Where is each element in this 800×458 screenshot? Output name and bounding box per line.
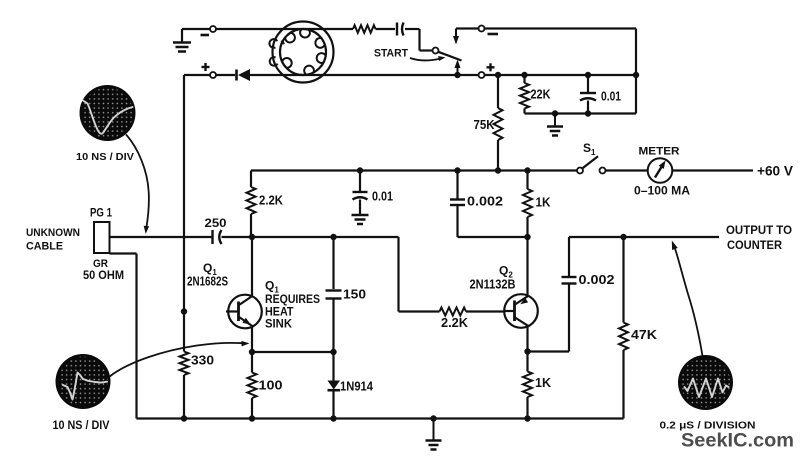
node: [249, 415, 255, 421]
svg-text:START: START: [374, 48, 408, 60]
ground (decoupling): [352, 215, 369, 224]
node: [249, 234, 255, 240]
switch S1: [577, 141, 606, 174]
svg-text:METER: METER: [639, 146, 680, 158]
svg-text:SeekIC.com: SeekIC.com: [681, 430, 794, 452]
switch START blade: [438, 52, 461, 61]
wire: [110, 236, 212, 238]
svg-text:22K: 22K: [531, 87, 552, 102]
transistor Q1 2N1682S: [226, 295, 262, 329]
wire: [182, 28, 210, 30]
node: [633, 72, 639, 78]
wire: [399, 237, 440, 312]
node: [330, 349, 336, 355]
node: [524, 167, 530, 173]
svg-text:PG 1: PG 1: [90, 206, 112, 220]
diode 1N914: [328, 352, 374, 419]
resistor (trigger, unlabeled): [353, 25, 376, 33]
wire: [183, 75, 185, 312]
node (Q2 collector junction): [524, 348, 530, 354]
wire: [222, 236, 399, 238]
resistor 1K (Q2 emitter): [523, 171, 551, 238]
label +60 V supply: [757, 164, 793, 179]
terminal + (trigger): [479, 63, 495, 78]
svg-text:100: 100: [259, 378, 283, 393]
label START: [374, 48, 408, 60]
resistor 2.2K (Q1 collector load): [247, 171, 284, 238]
label UNKNOWN CABLE: [26, 227, 80, 253]
svg-text:0–100 MA: 0–100 MA: [634, 184, 690, 198]
switch contact arrow (down): [453, 29, 459, 45]
svg-text:HEAT: HEAT: [265, 307, 294, 319]
wire: [525, 112, 637, 114]
watermark SeekIC.com: [681, 430, 794, 452]
ground (bias divider): [547, 114, 563, 136]
connector PG1 (pulse generator): [90, 206, 112, 254]
node: [524, 234, 530, 240]
switch START pole: [433, 48, 439, 54]
svg-text:250: 250: [205, 218, 227, 230]
node: [585, 110, 591, 116]
wire: [216, 28, 353, 30]
svg-text:+60 V: +60 V: [757, 164, 793, 179]
svg-text:150: 150: [343, 287, 366, 302]
svg-text:2.2K: 2.2K: [441, 315, 469, 330]
switch contact arrow (up): [455, 60, 461, 75]
annotation arrow (START): [410, 56, 446, 61]
terminal - (battery minus): [201, 26, 217, 35]
diode (series, unlabeled): [237, 69, 251, 81]
annotation arrow (scope2 to Q1 emitter): [109, 341, 250, 377]
svg-text:0.01: 0.01: [372, 189, 393, 204]
svg-text:REQUIRES: REQUIRES: [265, 294, 320, 306]
wire: [110, 254, 137, 419]
wire (Q2 collector): [526, 326, 528, 351]
wire: [376, 28, 396, 30]
capacitor 0.01 (decoupling): [353, 171, 394, 215]
svg-text:2N1682S: 2N1682S: [187, 275, 228, 289]
svg-text:10 NS / DIV: 10 NS / DIV: [76, 151, 134, 163]
wire: [250, 74, 479, 76]
node: [454, 167, 460, 173]
svg-text:10 NS / DIV: 10 NS / DIV: [53, 418, 110, 432]
resistor 75K: [474, 75, 503, 171]
svg-text:CABLE: CABLE: [26, 241, 63, 253]
svg-text:2N1132B: 2N1132B: [470, 278, 516, 292]
oscilloscope display (input pulse) 10 NS/DIV: [76, 85, 136, 163]
node (Q1 emitter junction): [249, 349, 255, 355]
svg-text:0.002: 0.002: [579, 272, 615, 287]
wire: [252, 351, 334, 353]
svg-text:SINK: SINK: [265, 319, 293, 331]
svg-text:47K: 47K: [631, 327, 658, 342]
wire: [606, 169, 648, 171]
node: [330, 234, 336, 240]
wire: [485, 74, 637, 76]
label Q1 2N1682S: [187, 261, 228, 289]
node (start junction): [454, 72, 460, 78]
svg-text:UNKNOWN: UNKNOWN: [26, 227, 80, 239]
node: [620, 234, 626, 240]
label Q1 requires heat sink: [265, 279, 320, 331]
ground (negative battery terminal): [173, 29, 191, 52]
wire: [528, 350, 570, 352]
wire: [405, 29, 433, 51]
node: [495, 167, 501, 173]
label Q2 2N1132B: [470, 264, 516, 292]
node: [524, 415, 530, 421]
wire (ground rail): [137, 417, 624, 419]
node: [521, 72, 527, 78]
wire: [216, 74, 235, 76]
svg-text:COUNTER: COUNTER: [727, 240, 783, 252]
node: [552, 110, 558, 116]
wire: [485, 29, 637, 114]
svg-text:0.002: 0.002: [467, 194, 503, 209]
label GR 50 OHM: [83, 258, 124, 282]
svg-text:1N914: 1N914: [340, 379, 374, 394]
resistor 1K (Q2 collector): [523, 352, 552, 419]
capacitor 250 (input coupling): [205, 218, 227, 244]
capacitor (trigger, unlabeled): [397, 23, 404, 36]
node: [585, 72, 591, 78]
svg-text:75K: 75K: [474, 117, 496, 132]
svg-text:2.2K: 2.2K: [259, 193, 284, 208]
node: [330, 415, 336, 421]
annotation arrow (scope1 to input wire): [126, 135, 149, 235]
resistor 2.2K (Q2 base): [440, 308, 506, 331]
wire: [251, 169, 578, 171]
oscilloscope display (output waveform) 0.2 uS/DIVISION: [660, 355, 756, 432]
oscilloscope display (emitter waveform) 10 NS/DIV: [53, 354, 111, 432]
svg-text:0.01: 0.01: [601, 89, 621, 104]
resistor 22K: [520, 75, 551, 114]
capacitor 0.002 (output coupling): [562, 237, 615, 352]
node (Q1 base): [181, 308, 187, 314]
terminal - (trigger): [479, 26, 499, 35]
node: [357, 167, 363, 173]
toroidal delay-line winding: [269, 22, 333, 83]
transistor Q2 2N1132B: [504, 294, 538, 328]
wire: [184, 74, 210, 76]
svg-text:OUTPUT TO: OUTPUT TO: [726, 225, 792, 237]
node: [181, 415, 187, 421]
svg-text:50 OHM: 50 OHM: [83, 268, 124, 282]
meter M 0-100MA: [634, 146, 690, 198]
capacitor 0.002 (speed-up): [450, 171, 528, 238]
node: [495, 72, 501, 78]
svg-text:1K: 1K: [536, 195, 552, 210]
wire (Q2 emitter): [526, 237, 528, 297]
ground (main): [426, 419, 442, 450]
resistor 47K (output load): [619, 237, 658, 419]
wire (Q1 collector): [251, 237, 253, 296]
svg-text:330: 330: [191, 353, 214, 368]
terminal + (battery plus): [202, 63, 217, 78]
resistor 100 (Q1 emitter): [248, 352, 283, 419]
label OUTPUT TO COUNTER: [726, 225, 792, 252]
wire: [456, 27, 479, 29]
svg-text:1K: 1K: [535, 375, 552, 390]
node: [430, 415, 436, 421]
resistor 330 (Q1 base bias): [180, 312, 215, 419]
wire (output): [569, 236, 719, 238]
capacitor 0.01 (trigger filter): [580, 75, 621, 114]
wire (Q1 emitter): [251, 326, 253, 352]
annotation arrow (scope3 to output wire): [672, 241, 703, 357]
capacitor 150: [326, 237, 367, 352]
wire: [673, 169, 754, 171]
